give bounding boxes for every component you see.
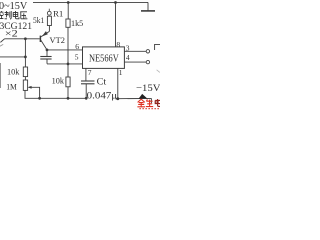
- terminal circle pin 4 output: [146, 60, 149, 63]
- wire pin 8 stub from rail to IC top: [115, 3, 117, 47]
- transistor VT2 base bar: [39, 36, 41, 42]
- wire top +15V rail: [33, 1, 148, 3]
- wire VT2 base from left: [5, 38, 40, 40]
- node junction left wire: [24, 56, 27, 59]
- wire cap bottom lead: [46, 59, 48, 64]
- node junction Ct on bottom rail: [85, 97, 88, 100]
- wire top rail right drop: [147, 2, 149, 11]
- node junction pin1 on rail: [116, 97, 119, 100]
- svg-text:4: 4: [126, 53, 130, 62]
- svg-text:NE566V: NE566V: [89, 54, 119, 65]
- transistor VT2 collector lead: [41, 40, 47, 50]
- resistor R1 body (5k1): [47, 16, 51, 25]
- hanzi dian: [13, 11, 19, 19]
- capacitor Ct top plate: [81, 80, 95, 82]
- wire pin 1 lead down to rail: [117, 68, 119, 98]
- svg-text:6: 6: [75, 42, 79, 51]
- terminal circle control-voltage input: [47, 11, 51, 15]
- wire cropped component corner top-right: [155, 44, 160, 50]
- node junction on rail for 1k5: [67, 1, 70, 4]
- wire 1k5 bottom lead crossing pin6 wire to pin5 node: [67, 27, 69, 64]
- node junction divider tap on pin5 wire: [67, 63, 70, 66]
- wire cropped mark right edge: [157, 70, 160, 73]
- watermark red char 1: [137, 99, 153, 107]
- wire Ct bottom lead to rail: [85, 84, 87, 98]
- node junction base wire / left divider: [24, 37, 27, 40]
- svg-text:7: 7: [88, 68, 92, 77]
- node junction on rail for pin8: [114, 1, 117, 4]
- svg-text:10k: 10k: [7, 67, 20, 77]
- transistor VT2 emitter arrowhead (PNP): [42, 31, 48, 36]
- watermark hanzi sheng: [146, 99, 153, 106]
- svg-text:0.047μ: 0.047μ: [87, 91, 118, 101]
- wire cropped remnant top-left of divider: [0, 44, 3, 46]
- wire 1M bottom lead to bottom rail: [25, 90, 40, 98]
- capacitor top plate: [40, 56, 51, 58]
- wire bottom rail left segment: [40, 97, 87, 99]
- wire left horizontal to divider: [0, 56, 25, 58]
- capacitor bottom plate: [40, 58, 51, 60]
- wire cap top lead: [46, 50, 48, 56]
- wire pin 4 stub to output terminal: [124, 61, 146, 63]
- svg-text:VT2: VT2: [50, 35, 65, 45]
- label 控制电压: [0, 11, 27, 19]
- potentiometer 1M wiper arrowhead: [28, 86, 32, 89]
- wire 10k bottom lead to ground rail: [67, 87, 69, 99]
- watermark hanzi quan: [137, 99, 145, 107]
- +15V supply bar: [141, 10, 155, 12]
- svg-text:0~15V: 0~15V: [0, 1, 28, 12]
- resistor 1k5 body: [66, 19, 70, 27]
- svg-text:5k1: 5k1: [33, 16, 44, 25]
- wire pin 5 from cap to IC: [47, 63, 83, 65]
- svg-text:8: 8: [116, 40, 120, 49]
- hanzi kong (clipped): [0, 11, 4, 19]
- terminal circle pin 3 output: [146, 50, 149, 53]
- wire pin 6 from collector node to IC: [47, 49, 83, 51]
- svg-text:1: 1: [119, 68, 123, 77]
- wire left column vertical: [24, 39, 26, 67]
- wire between 10k and 1M: [24, 77, 26, 80]
- svg-text:1M: 1M: [6, 81, 17, 91]
- IC U1 NE566V box: [83, 47, 125, 69]
- svg-text:−15V: −15V: [136, 83, 160, 94]
- svg-text:10k: 10k: [52, 75, 65, 85]
- resistor 10k (right) body: [66, 77, 70, 87]
- svg-text:Ct: Ct: [97, 77, 107, 87]
- hanzi zhi: [5, 11, 12, 19]
- transistor VT2 emitter lead with arrow: [41, 31, 49, 36]
- node junction wiper on bottom rail: [38, 97, 41, 100]
- wire input terminal stub: [48, 9, 50, 12]
- svg-text:R1: R1: [53, 8, 63, 18]
- wire bottom rail right segment: [116, 97, 152, 100]
- capacitor Ct bottom plate: [81, 83, 95, 85]
- wire R1 bottom to emitter diagonal: [48, 26, 50, 32]
- potentiometer 1M wiper line: [29, 87, 40, 98]
- node junction 10k on bottom rail: [67, 97, 70, 100]
- svg-text:×2: ×2: [5, 29, 18, 40]
- svg-text:1k5: 1k5: [71, 19, 83, 28]
- resistor 10k (left) body: [23, 67, 27, 77]
- hanzi ya: [20, 12, 27, 19]
- wire cropped left edge vertical: [0, 63, 2, 88]
- node junction collector / pin6 wire / cap: [46, 49, 49, 52]
- wire pin 3 stub to output terminal: [124, 50, 146, 52]
- svg-text:5: 5: [75, 53, 79, 62]
- wire base-wire left diagonal remnant: [0, 39, 4, 43]
- wire divider to 10k lower resistor: [67, 64, 69, 77]
- svg-text:3: 3: [126, 44, 130, 53]
- watermark hanzi partial dark: [155, 99, 160, 106]
- wire -15V drop: [150, 98, 152, 103]
- watermark small red text row: [140, 108, 160, 110]
- -15V supply arrow triangle: [139, 94, 148, 99]
- wire pin 7 stub down from IC: [85, 68, 87, 80]
- wire 1k5 top lead from rail: [67, 3, 69, 20]
- potentiometer 1M body: [23, 80, 27, 90]
